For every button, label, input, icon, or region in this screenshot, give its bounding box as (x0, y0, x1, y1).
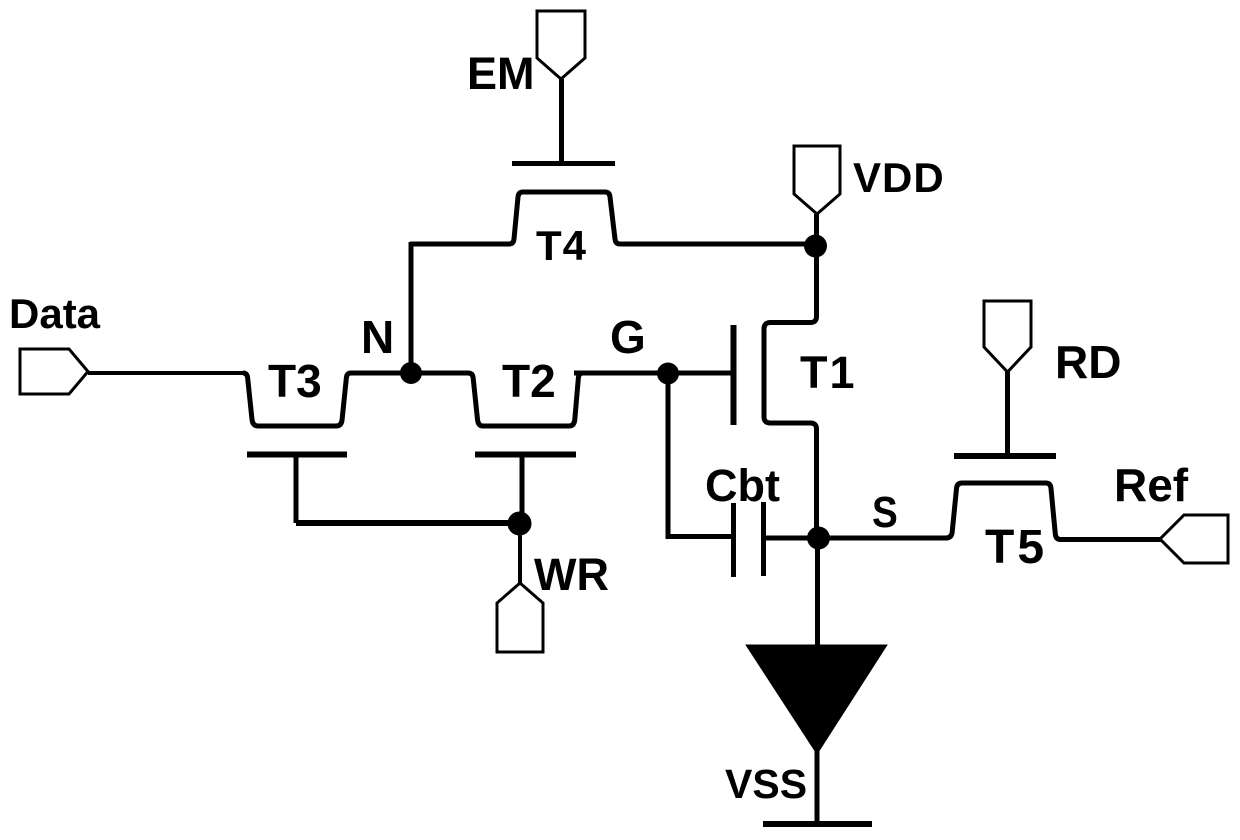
wire gate bus (296, 520, 519, 526)
wire G down to capacitor (668, 374, 731, 537)
svg-text:EM: EM (467, 48, 535, 99)
svg-text:VDD: VDD (853, 154, 945, 201)
svg-text:T5: T5 (985, 521, 1047, 574)
terminal Ref pentagon (1160, 515, 1228, 563)
wire T2 to node G (574, 371, 668, 376)
wire T2 gate stem (520, 455, 525, 524)
transistor T2 gate bar (475, 452, 576, 458)
wire Data to T3 (88, 371, 246, 375)
transistor T3 channel (243, 373, 411, 426)
wire VDD stem (814, 214, 819, 246)
node N dot (400, 362, 422, 384)
transistor T1 gate bar (731, 325, 737, 425)
svg-text:T2: T2 (502, 355, 556, 407)
svg-text:Data: Data (9, 290, 101, 337)
wire RD stem (1005, 372, 1010, 454)
wire EM stem (559, 79, 564, 164)
svg-text:WR: WR (534, 549, 609, 600)
svg-text:T4: T4 (536, 222, 587, 269)
transistor T1 drain-channel-source (764, 246, 817, 538)
capacitor Cbt right plate (761, 502, 766, 576)
transistor T4 channel (410, 192, 810, 244)
wire G to T1 gate (668, 371, 731, 376)
transistor T5 gate bar (954, 453, 1056, 459)
svg-text:RD: RD (1055, 336, 1121, 388)
wire S down to VSS (815, 538, 820, 650)
transistor T5 channel (946, 483, 1162, 540)
svg-text:N: N (361, 311, 394, 363)
terminal VDD pentagon (794, 146, 840, 214)
node VDD junction dot (804, 235, 827, 258)
wire capacitor to node S (764, 536, 819, 541)
terminal Data pentagon (20, 349, 88, 394)
terminal EM pentagon (537, 11, 585, 79)
svg-text:Ref: Ref (1114, 459, 1189, 511)
svg-text:T1: T1 (800, 347, 857, 398)
transistor T2 channel (411, 373, 600, 426)
wire S to T5 (818, 536, 948, 541)
wire VSS to ground (815, 750, 820, 824)
wire WR stem (518, 523, 522, 583)
node S dot (807, 527, 830, 550)
svg-text:Cbt: Cbt (705, 460, 780, 511)
svg-text:T3: T3 (268, 355, 322, 407)
wire T3 gate stem (294, 455, 299, 524)
terminal WR pentagon (497, 583, 543, 652)
capacitor Cbt left plate (731, 503, 736, 577)
svg-text:VSS: VSS (725, 761, 807, 807)
terminal RD pentagon (984, 301, 1031, 372)
wire N to T4 (409, 242, 414, 373)
node G dot (657, 363, 679, 385)
node WR junction dot (508, 512, 532, 536)
transistor T3 gate bar (247, 452, 347, 458)
VSS triangle (747, 646, 886, 754)
transistor T4 gate bar (512, 161, 615, 166)
ground bar (763, 821, 872, 827)
svg-text:S: S (872, 487, 898, 537)
svg-text:G: G (610, 311, 646, 363)
